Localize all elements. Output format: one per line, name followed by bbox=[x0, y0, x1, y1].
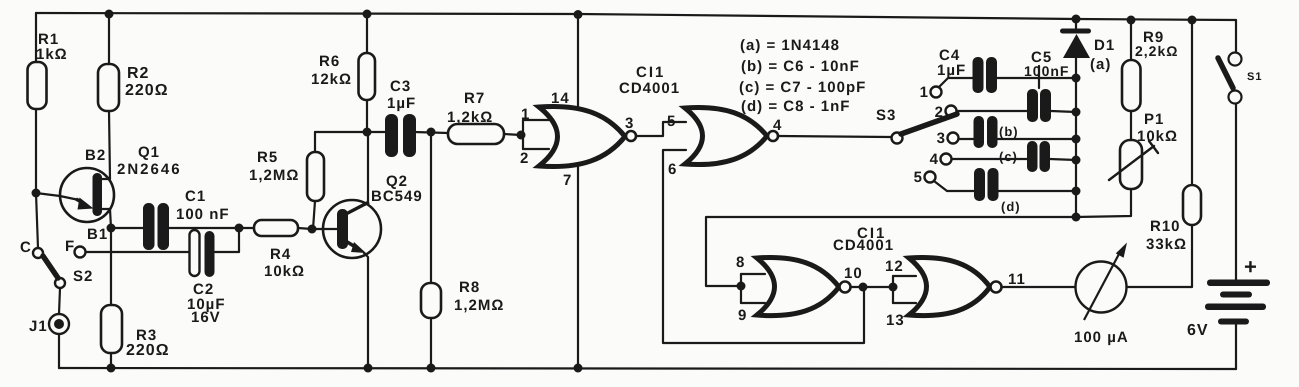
svg-text:5: 5 bbox=[667, 113, 676, 130]
svg-text:+: + bbox=[1244, 254, 1258, 279]
svg-text:10kΩ: 10kΩ bbox=[264, 263, 305, 280]
svg-text:33kΩ: 33kΩ bbox=[1146, 236, 1187, 253]
svg-text:1kΩ: 1kΩ bbox=[36, 46, 68, 63]
svg-text:2,2kΩ: 2,2kΩ bbox=[1135, 43, 1178, 59]
svg-text:2: 2 bbox=[520, 150, 529, 167]
svg-text:B1: B1 bbox=[87, 226, 108, 243]
svg-text:220Ω: 220Ω bbox=[125, 82, 169, 99]
svg-text:D1: D1 bbox=[1094, 37, 1115, 54]
svg-text:(d): (d) bbox=[1001, 199, 1021, 214]
svg-text:9: 9 bbox=[738, 307, 747, 324]
svg-text:R10: R10 bbox=[1150, 218, 1181, 235]
svg-text:(b): (b) bbox=[999, 124, 1019, 139]
svg-text:F: F bbox=[65, 238, 75, 255]
svg-text:11: 11 bbox=[1008, 271, 1026, 288]
svg-text:10kΩ: 10kΩ bbox=[1137, 128, 1178, 145]
svg-text:B2: B2 bbox=[85, 147, 106, 164]
svg-text:4: 4 bbox=[930, 151, 939, 168]
svg-text:3: 3 bbox=[625, 115, 634, 132]
svg-text:3: 3 bbox=[937, 130, 946, 147]
svg-text:P1: P1 bbox=[1144, 111, 1164, 128]
svg-text:100nF: 100nF bbox=[1024, 63, 1069, 79]
svg-text:R4: R4 bbox=[270, 246, 291, 263]
svg-text:R8: R8 bbox=[459, 279, 480, 296]
svg-text:S2: S2 bbox=[73, 268, 93, 285]
svg-text:(a) = 1N4148: (a) = 1N4148 bbox=[740, 37, 840, 54]
svg-text:C: C bbox=[20, 239, 32, 256]
svg-text:C1: C1 bbox=[185, 188, 206, 205]
svg-text:4: 4 bbox=[773, 117, 782, 134]
svg-text:1µF: 1µF bbox=[387, 95, 416, 112]
svg-text:R5: R5 bbox=[257, 149, 278, 166]
svg-text:12: 12 bbox=[885, 258, 904, 275]
svg-text:C3: C3 bbox=[390, 78, 411, 95]
svg-text:5: 5 bbox=[914, 169, 923, 186]
svg-text:12kΩ: 12kΩ bbox=[311, 71, 352, 88]
svg-text:CI1: CI1 bbox=[636, 64, 665, 81]
svg-text:2: 2 bbox=[935, 104, 944, 121]
svg-text:1,2kΩ: 1,2kΩ bbox=[447, 109, 493, 126]
svg-text:13: 13 bbox=[886, 312, 905, 329]
svg-text:S3: S3 bbox=[876, 107, 896, 124]
svg-text:(c): (c) bbox=[999, 149, 1018, 164]
svg-text:R6: R6 bbox=[319, 53, 340, 70]
svg-text:(c) = C7 - 100pF: (c) = C7 - 100pF bbox=[739, 79, 866, 96]
svg-text:7: 7 bbox=[563, 172, 572, 189]
svg-text:10: 10 bbox=[844, 265, 863, 282]
svg-text:8: 8 bbox=[736, 254, 745, 271]
svg-text:(d) = C8 - 1nF: (d) = C8 - 1nF bbox=[741, 98, 850, 115]
svg-text:R2: R2 bbox=[127, 65, 149, 82]
svg-text:2N2646: 2N2646 bbox=[117, 161, 182, 178]
svg-text:6V: 6V bbox=[1187, 322, 1209, 339]
svg-text:S1: S1 bbox=[1247, 71, 1262, 83]
svg-text:1,2MΩ: 1,2MΩ bbox=[454, 297, 504, 314]
svg-text:R7: R7 bbox=[464, 90, 485, 107]
svg-text:6: 6 bbox=[668, 161, 677, 178]
svg-text:Q1: Q1 bbox=[138, 144, 160, 161]
svg-text:CD4001: CD4001 bbox=[619, 80, 680, 97]
svg-text:14: 14 bbox=[551, 90, 570, 107]
svg-text:100 µA: 100 µA bbox=[1074, 329, 1129, 346]
svg-text:1,2MΩ: 1,2MΩ bbox=[249, 167, 299, 184]
svg-text:16V: 16V bbox=[191, 309, 221, 326]
svg-text:1µF: 1µF bbox=[937, 62, 966, 79]
svg-text:(b) = C6 - 10nF: (b) = C6 - 10nF bbox=[741, 58, 860, 75]
svg-text:220Ω: 220Ω bbox=[126, 342, 170, 359]
svg-text:CD4001: CD4001 bbox=[833, 237, 894, 254]
svg-text:(a): (a) bbox=[1090, 56, 1111, 73]
svg-text:1: 1 bbox=[521, 106, 530, 123]
svg-text:J1: J1 bbox=[29, 318, 48, 335]
svg-text:100 nF: 100 nF bbox=[176, 206, 230, 223]
svg-text:BC549: BC549 bbox=[371, 188, 423, 205]
svg-text:1: 1 bbox=[920, 84, 929, 101]
